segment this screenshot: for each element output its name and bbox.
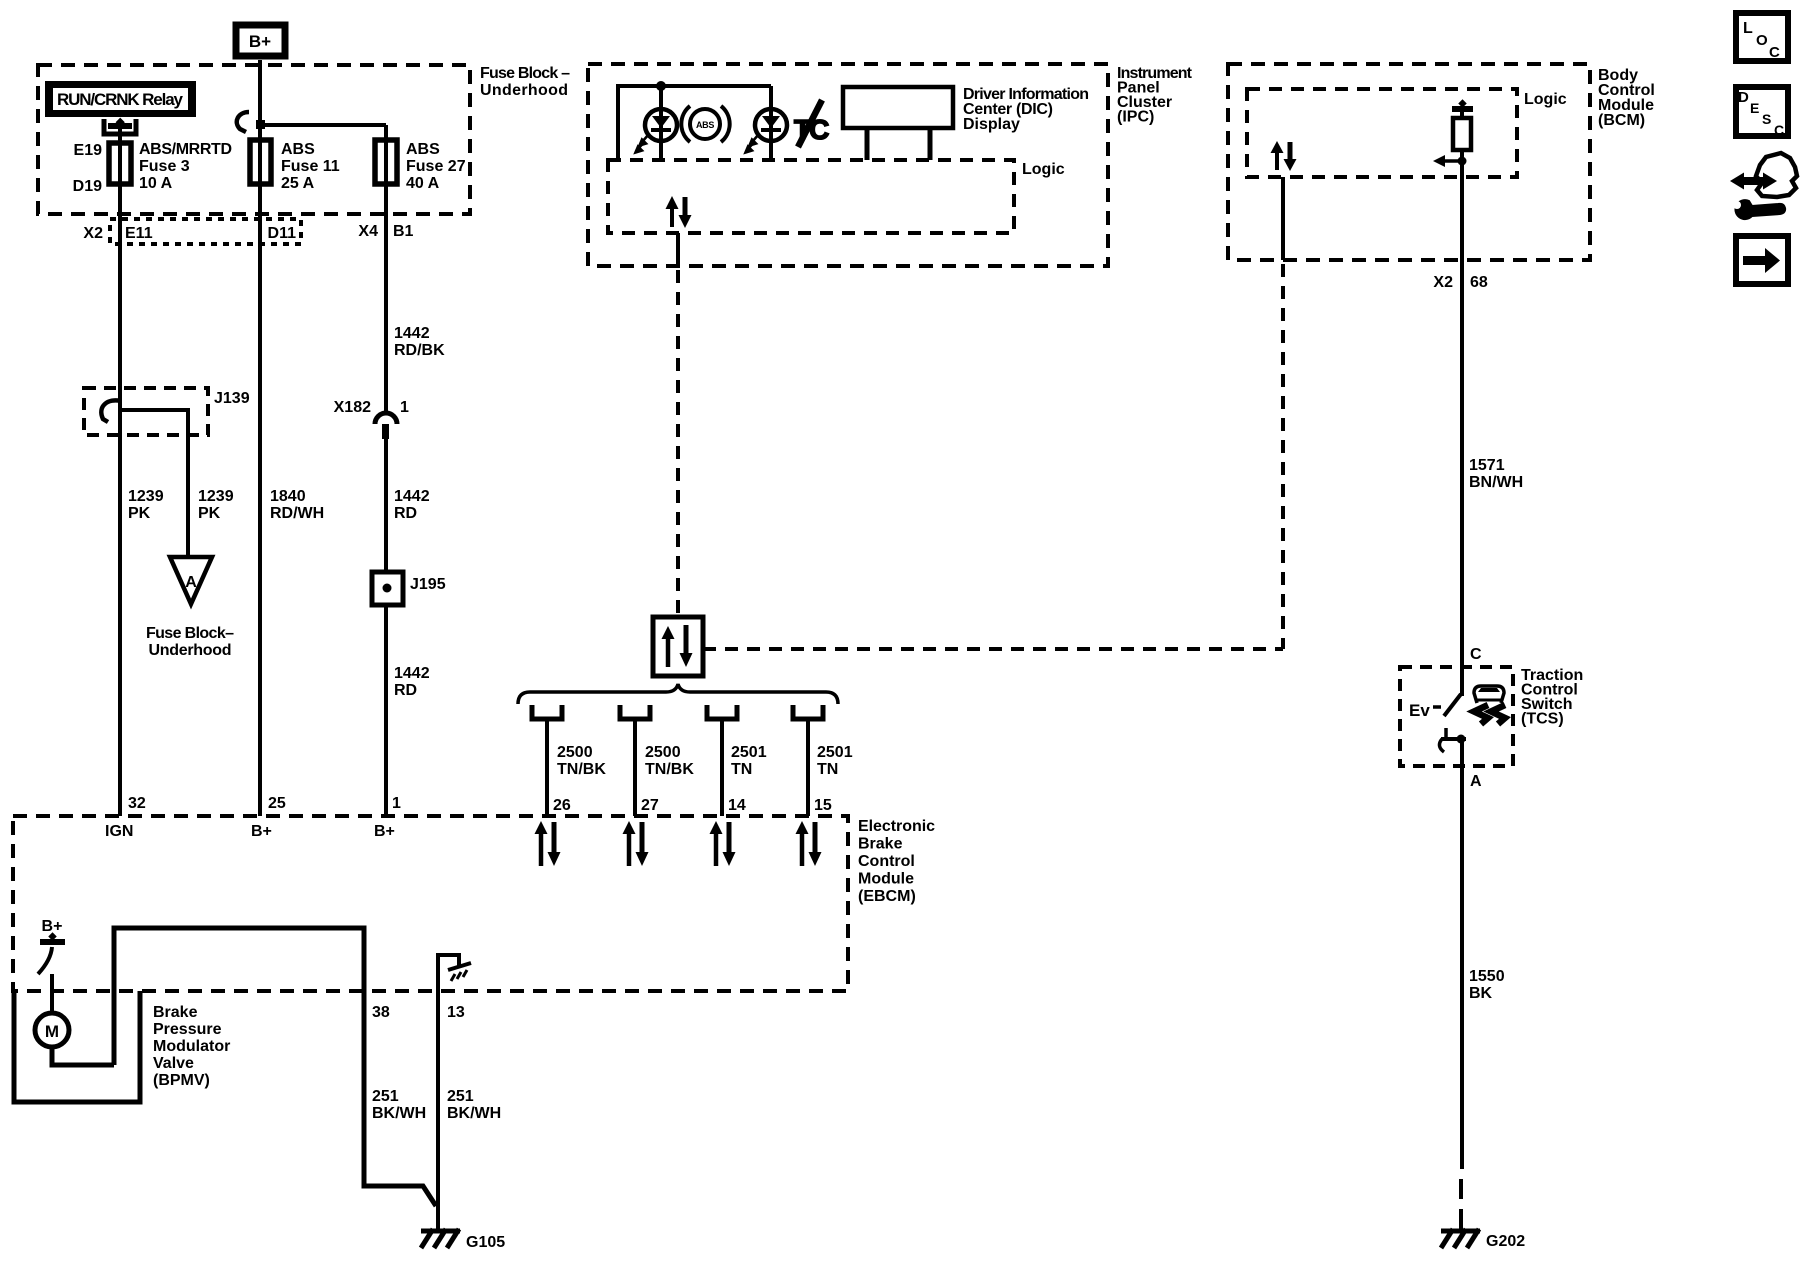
svg-text:1239: 1239 — [128, 488, 164, 505]
svg-text:G202: G202 — [1486, 1233, 1525, 1250]
svg-text:26: 26 — [553, 797, 571, 814]
connector X2 pinout box — [83, 219, 413, 244]
svg-text:1239: 1239 — [198, 488, 234, 505]
motor M pump — [35, 1013, 69, 1047]
svg-text:25: 25 — [268, 795, 286, 812]
wire motor return to B+ rail — [52, 1047, 114, 1065]
label TCS — [1521, 667, 1583, 728]
component BPMV brake pressure modulator valve box — [14, 991, 140, 1102]
ground G202 — [1441, 1229, 1525, 1250]
brace serial data to EBCM pins — [518, 684, 838, 704]
wire switch to motor — [50, 974, 54, 1013]
symbol ABS indicator — [681, 106, 729, 142]
wire label 2500 TN/BK second — [645, 744, 694, 778]
wire label 251 BK/WH left — [372, 1088, 426, 1122]
label Fuse Block - Underhood — [480, 65, 570, 99]
wire serial data BCM external dashed — [1281, 264, 1285, 649]
wire label 1571 BN/WH — [1469, 457, 1523, 491]
svg-text:Modulator: Modulator — [153, 1038, 230, 1055]
svg-text:X2: X2 — [1433, 274, 1453, 291]
svg-text:Fuse 11: Fuse 11 — [281, 158, 340, 175]
wire label 1442 RD upper — [394, 488, 430, 522]
wire fuse 11 down — [258, 141, 262, 816]
svg-text:Fuse 27: Fuse 27 — [406, 158, 466, 175]
ground internal EBCM pin 13 — [438, 955, 471, 992]
svg-text:B1: B1 — [393, 223, 414, 240]
icon car skid TCS — [1474, 686, 1505, 724]
wire pin 26 — [545, 719, 549, 816]
svg-text:X2: X2 — [83, 225, 103, 242]
wire serial data gateway to BCM dashed — [703, 647, 1283, 651]
svg-text:1571: 1571 — [1469, 457, 1505, 474]
svg-text:Brake: Brake — [153, 1004, 198, 1021]
wire resistor to TCS signal — [1460, 150, 1464, 696]
node junction lamp rail — [656, 81, 666, 91]
splice tap hook at B+ branch — [237, 112, 249, 132]
svg-text:PK: PK — [198, 505, 221, 522]
svg-text:10 A: 10 A — [139, 175, 173, 192]
wire fuse 27 down — [384, 125, 388, 412]
fuse F3 ABS/MRRTD 10A — [73, 141, 232, 195]
svg-text:ABS: ABS — [281, 141, 315, 158]
wire label 2501 TN second — [817, 744, 853, 778]
svg-text:O: O — [1756, 32, 1768, 49]
svg-text:M: M — [45, 1022, 59, 1041]
icon forward arrow legend box — [1736, 236, 1788, 284]
svg-text:RD/BK: RD/BK — [394, 342, 445, 359]
svg-text:(BCM): (BCM) — [1598, 112, 1645, 129]
wire X182 to J195 — [384, 439, 388, 816]
serial data arrows EBCM pin 15 — [796, 821, 822, 866]
svg-text:Fuse Block–: Fuse Block– — [146, 625, 234, 642]
svg-text:TN: TN — [817, 761, 838, 778]
svg-text:(EBCM): (EBCM) — [858, 888, 916, 905]
pin terminal EBCM 26 — [532, 705, 562, 719]
indicator lamp LED ABS — [636, 86, 678, 162]
wire label 1840 RD/WH — [270, 488, 324, 522]
svg-text:RD/WH: RD/WH — [270, 505, 324, 522]
wire label 2501 TN first — [731, 744, 767, 778]
connector X2 pin 68 labels — [1433, 274, 1487, 291]
svg-text:Display: Display — [963, 116, 1020, 133]
svg-text:Brake: Brake — [858, 836, 903, 853]
wire label 1239 PK right — [198, 488, 234, 522]
splice J139 — [84, 388, 250, 435]
node B+ battery feed — [236, 25, 285, 56]
svg-text:J195: J195 — [410, 576, 446, 593]
icon DESC legend box — [1736, 87, 1788, 138]
relay RUN/CRNK — [45, 81, 196, 117]
svg-text:RUN/CRNK Relay: RUN/CRNK Relay — [57, 90, 184, 109]
svg-text:ABS: ABS — [406, 141, 440, 158]
svg-text:Underhood: Underhood — [480, 82, 568, 99]
svg-text:Control: Control — [858, 853, 915, 870]
label IPC — [1117, 65, 1193, 126]
serial data arrows IPC logic — [666, 196, 692, 228]
wire B+ to Fuse 11 — [258, 60, 262, 141]
svg-text:Valve: Valve — [153, 1055, 194, 1072]
svg-text:1: 1 — [392, 795, 401, 812]
svg-text:B+: B+ — [249, 32, 271, 51]
splice J195 — [372, 572, 446, 605]
svg-text:BK: BK — [1469, 985, 1493, 1002]
wire label 251 BK/WH right — [447, 1088, 501, 1122]
label BCM — [1598, 67, 1655, 129]
svg-text:1442: 1442 — [394, 325, 430, 342]
svg-text:ABS/MRRTD: ABS/MRRTD — [139, 141, 232, 158]
svg-text:68: 68 — [1470, 274, 1488, 291]
label BPMV — [153, 1004, 230, 1089]
wire dashed to G202 — [1459, 1179, 1463, 1229]
fuse F27 ABS 40A — [375, 140, 466, 192]
svg-text:1442: 1442 — [394, 488, 430, 505]
switch pump motor relay contact — [38, 947, 52, 974]
svg-text:D19: D19 — [73, 178, 102, 195]
svg-text:TN: TN — [731, 761, 752, 778]
svg-text:C: C — [1470, 646, 1482, 663]
svg-text:(TCS): (TCS) — [1521, 711, 1564, 728]
icon harness repair legend — [1730, 153, 1797, 219]
serial data gateway box — [653, 617, 703, 676]
svg-text:L: L — [1743, 20, 1753, 37]
svg-text:BK/WH: BK/WH — [372, 1105, 426, 1122]
wire serial data BCM internal — [1281, 177, 1285, 260]
wire label 1442 RD lower — [394, 665, 430, 699]
display DIC driver information center — [843, 86, 1089, 160]
svg-text:Fuse Block –: Fuse Block – — [480, 65, 570, 82]
svg-text:251: 251 — [447, 1088, 474, 1105]
svg-text:27: 27 — [641, 797, 659, 814]
serial data arrows BCM logic — [1271, 141, 1297, 171]
svg-text:13: 13 — [447, 1004, 465, 1021]
wire J139 branch — [120, 410, 188, 556]
svg-text:PK: PK — [128, 505, 151, 522]
svg-text:Fuse 3: Fuse 3 — [139, 158, 190, 175]
svg-text:B+: B+ — [374, 823, 395, 840]
wire label 1239 PK left — [128, 488, 164, 522]
label fuse block underhood destination — [146, 625, 234, 659]
svg-text:RD: RD — [394, 505, 417, 522]
wire pin 13 to G105 — [436, 991, 440, 1229]
node A off-page triangle — [170, 557, 212, 604]
indicator lamp LED TC — [746, 86, 788, 162]
wire pin 15 — [806, 719, 810, 816]
wire pin 27 — [633, 719, 637, 816]
wire serial data IPC to gateway dashed — [676, 270, 680, 617]
svg-text:C: C — [1769, 44, 1780, 61]
svg-text:BK/WH: BK/WH — [447, 1105, 501, 1122]
svg-text:Ev: Ev — [1409, 701, 1430, 720]
svg-text:J139: J139 — [214, 390, 250, 407]
module EBCM electronic brake control module box — [13, 816, 848, 991]
relay contact terminal — [104, 118, 136, 134]
svg-text:1550: 1550 — [1469, 968, 1505, 985]
svg-text:ABS: ABS — [696, 120, 714, 130]
svg-text:251: 251 — [372, 1088, 399, 1105]
svg-text:Module: Module — [858, 871, 914, 888]
svg-text:Logic: Logic — [1022, 161, 1065, 178]
svg-text:25 A: 25 A — [281, 175, 315, 192]
svg-text:S: S — [1762, 111, 1771, 127]
svg-text:C: C — [1774, 122, 1784, 138]
serial data arrows EBCM pin 26 — [535, 821, 561, 866]
svg-text:B+: B+ — [42, 918, 63, 935]
svg-text:2501: 2501 — [817, 744, 853, 761]
svg-text:E: E — [1750, 100, 1759, 116]
svg-text:1840: 1840 — [270, 488, 306, 505]
resistor pull-up BCM — [1452, 99, 1473, 150]
wire label 1550 BK — [1469, 968, 1505, 1002]
pin terminal EBCM 27 — [620, 705, 650, 719]
node B+ internal supply — [40, 918, 65, 945]
svg-text:G105: G105 — [466, 1234, 505, 1251]
svg-text:14: 14 — [728, 797, 746, 814]
wire IPC lamp feed rail — [618, 86, 771, 162]
logic block IPC — [608, 160, 1065, 233]
svg-text:X4: X4 — [358, 223, 378, 240]
svg-text:B+: B+ — [251, 823, 272, 840]
svg-text:Logic: Logic — [1524, 91, 1567, 108]
svg-text:Underhood: Underhood — [149, 642, 232, 659]
svg-text:2500: 2500 — [557, 744, 593, 761]
wire pin 14 — [720, 719, 724, 816]
svg-text:15: 15 — [814, 797, 832, 814]
ground G105 — [421, 1229, 505, 1251]
svg-text:40 A: 40 A — [406, 175, 440, 192]
connector X182 pin 1 — [334, 399, 409, 439]
arrow signal into logic — [1433, 155, 1462, 167]
wire label 2500 TN/BK first — [557, 744, 606, 778]
svg-text:32: 32 — [128, 795, 146, 812]
symbol TC indicator — [794, 100, 829, 147]
svg-text:D: D — [1738, 89, 1749, 106]
fuse F11 ABS 25A — [250, 140, 340, 192]
svg-text:(BPMV): (BPMV) — [153, 1072, 210, 1089]
pin terminal EBCM 14 — [707, 705, 737, 719]
wire branch B+ to Fuse 27 — [256, 120, 386, 129]
svg-text:E11: E11 — [125, 225, 153, 242]
switch TCS traction control box — [1400, 667, 1513, 766]
svg-text:TN/BK: TN/BK — [645, 761, 694, 778]
fuse block underhood box — [38, 65, 470, 214]
svg-text:(IPC): (IPC) — [1117, 109, 1154, 126]
node junction signal sense — [1458, 157, 1467, 166]
svg-text:1: 1 — [400, 399, 409, 416]
svg-text:RD: RD — [394, 682, 417, 699]
pin terminal EBCM 15 — [793, 705, 823, 719]
wire TCS to ground — [1460, 737, 1464, 1169]
svg-text:Pressure: Pressure — [153, 1021, 222, 1038]
svg-text:1442: 1442 — [394, 665, 430, 682]
wire B+ rail to pin 38 — [114, 928, 436, 1206]
svg-text:IGN: IGN — [105, 823, 133, 840]
svg-text:BN/WH: BN/WH — [1469, 474, 1523, 491]
svg-text:TN/BK: TN/BK — [557, 761, 606, 778]
svg-text:A: A — [185, 574, 197, 591]
module IPC instrument panel cluster box — [588, 64, 1108, 266]
serial data arrows EBCM pin 27 — [623, 821, 649, 866]
serial data arrows EBCM pin 14 — [710, 821, 736, 866]
svg-text:2500: 2500 — [645, 744, 681, 761]
module BCM body control module box — [1228, 64, 1590, 260]
wire label 1442 RD/BK — [394, 325, 445, 359]
svg-text:A: A — [1470, 773, 1482, 790]
svg-text:D11: D11 — [268, 225, 297, 242]
svg-text:E19: E19 — [74, 142, 103, 159]
svg-text:X182: X182 — [334, 399, 371, 416]
wire serial data stub below logic — [676, 233, 680, 266]
svg-text:38: 38 — [372, 1004, 390, 1021]
icon LOC legend box — [1736, 13, 1788, 61]
label EBCM — [858, 818, 935, 905]
logic block BCM — [1247, 89, 1567, 177]
svg-text:2501: 2501 — [731, 744, 767, 761]
wire relay to fuse 3 — [118, 128, 122, 816]
svg-text:Electronic: Electronic — [858, 818, 935, 835]
